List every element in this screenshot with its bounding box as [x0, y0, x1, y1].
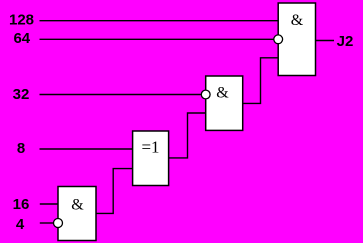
wire: input 4 to U1 inverted pin 2: [40, 222, 54, 224]
input label 16: [13, 196, 30, 213]
wire: input 32 to U3 inverted pin 1: [40, 94, 202, 96]
svg-text:=1: =1: [141, 138, 159, 157]
input label 128: [9, 12, 34, 29]
svg-text:J2: J2: [337, 33, 354, 50]
wire: input 8 to U2 pin 1: [40, 148, 133, 150]
AND gate U4: [278, 3, 315, 76]
svg-text:32: 32: [13, 86, 30, 103]
input label 8: [17, 140, 25, 157]
svg-text:8: 8: [17, 140, 25, 157]
wire: U2 output to U3 pin 2: [169, 113, 206, 158]
svg-text:4: 4: [16, 216, 25, 233]
svg-text:&: &: [291, 12, 304, 29]
input label 64: [13, 30, 30, 47]
input label 4: [16, 216, 25, 233]
inversion bubble on U3 input pin 1 (32): [201, 90, 210, 99]
input label 32: [13, 86, 30, 103]
wire: input 128 to U4 pin 1: [40, 20, 279, 22]
wire: U1 output to U2 pin 2: [96, 169, 133, 214]
svg-text:&: &: [71, 196, 84, 213]
wire: input 64 to U4 inverted pin 2: [40, 38, 275, 40]
AND gate U1: [58, 187, 96, 241]
wire: U3 output to U4 pin 3: [243, 58, 279, 104]
AND gate U3: [206, 76, 243, 130]
XOR gate U2 (=1): [133, 131, 169, 186]
output label J2: [337, 33, 354, 50]
wire: U4 output to J2: [316, 40, 335, 42]
wire: input 16 to U1 pin 1: [40, 203, 58, 205]
svg-text:128: 128: [9, 12, 34, 29]
svg-text:&: &: [216, 84, 229, 101]
svg-text:16: 16: [13, 196, 30, 213]
inversion bubble on U4 input pin 2 (64): [274, 35, 283, 44]
svg-text:64: 64: [13, 30, 30, 47]
inversion bubble on U1 input pin 2 (4): [54, 219, 63, 228]
